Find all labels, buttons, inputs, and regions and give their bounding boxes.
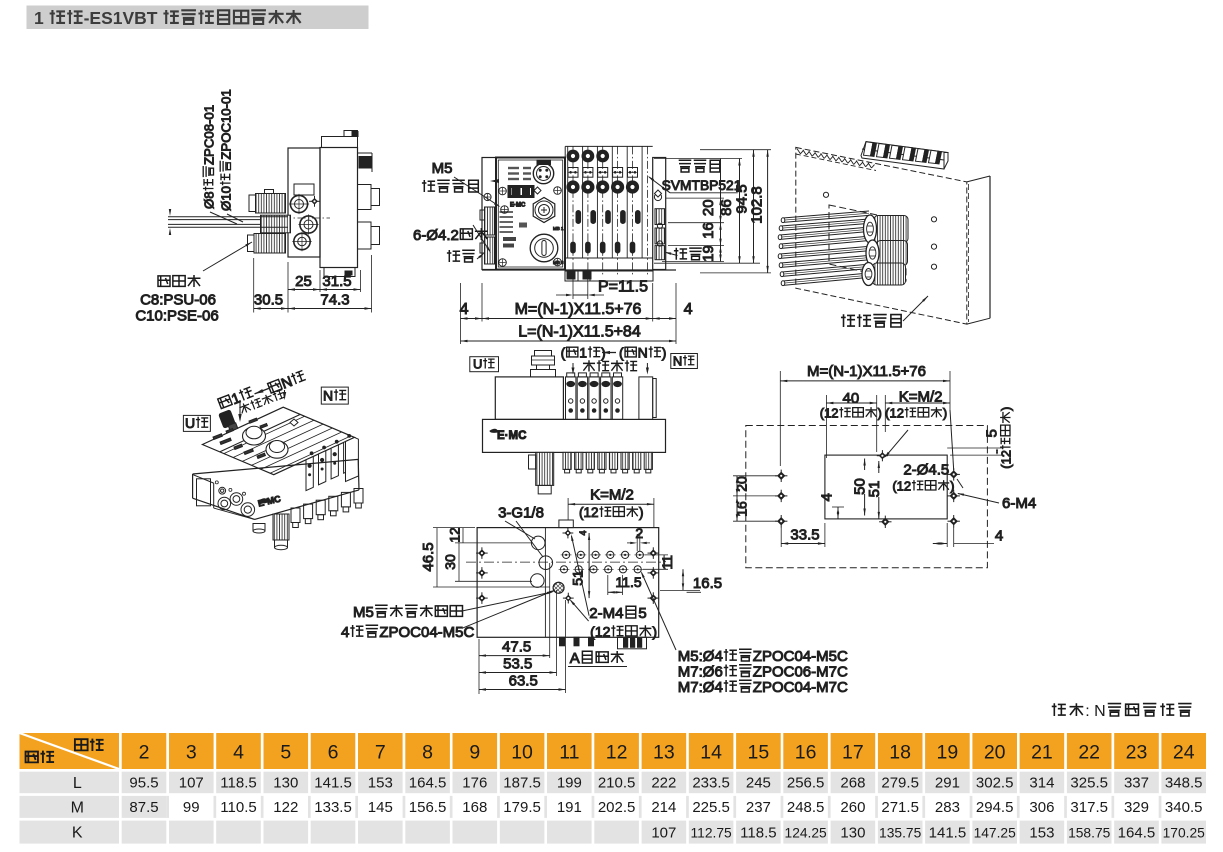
svg-text:8: 8 (422, 742, 433, 764)
svg-text:16: 16 (700, 222, 717, 239)
svg-text:13: 13 (653, 742, 675, 764)
svg-text:348.5: 348.5 (1165, 775, 1203, 792)
svg-text:): ) (639, 505, 644, 520)
svg-text:15: 15 (748, 742, 770, 764)
svg-text:U: U (185, 415, 195, 431)
svg-text:(: ( (561, 345, 566, 361)
svg-text:23: 23 (1126, 742, 1148, 764)
svg-text:MB 3: MB 3 (553, 260, 564, 265)
svg-text:291: 291 (935, 775, 960, 792)
svg-text:9: 9 (469, 742, 480, 764)
svg-text:12: 12 (447, 527, 463, 543)
svg-text:16.5: 16.5 (693, 575, 722, 592)
svg-text:2-M4: 2-M4 (589, 605, 623, 622)
svg-text:U: U (473, 357, 482, 372)
svg-text:40: 40 (842, 390, 859, 407)
svg-text:3-G1/8: 3-G1/8 (498, 505, 544, 522)
svg-text:4: 4 (578, 530, 588, 535)
svg-text:107: 107 (651, 824, 676, 841)
svg-text:4: 4 (233, 742, 244, 764)
svg-text:M: M (71, 799, 84, 816)
svg-text:M5:Ø4: M5:Ø4 (678, 648, 723, 665)
svg-text:M=(N-1)X11.5+76: M=(N-1)X11.5+76 (807, 363, 926, 380)
svg-text:46.5: 46.5 (420, 542, 437, 571)
svg-text:47.5: 47.5 (502, 639, 531, 656)
svg-text:153: 153 (368, 775, 393, 792)
svg-text:18: 18 (889, 742, 911, 764)
svg-text:19: 19 (937, 742, 959, 764)
svg-text:12: 12 (606, 742, 628, 764)
svg-text:1: 1 (579, 345, 587, 361)
svg-text:214: 214 (651, 799, 676, 816)
svg-text:191: 191 (557, 799, 582, 816)
svg-text:63.5: 63.5 (509, 673, 538, 690)
svg-text:248.5: 248.5 (787, 799, 825, 816)
svg-text:130: 130 (273, 775, 298, 792)
svg-text:99: 99 (183, 799, 200, 816)
svg-text:199: 199 (557, 775, 582, 792)
svg-text:51: 51 (866, 481, 883, 498)
svg-text:): ) (662, 345, 667, 361)
svg-text:P=11.5: P=11.5 (598, 279, 648, 296)
svg-text:Ø8: Ø8 (202, 191, 217, 209)
svg-text:4: 4 (460, 301, 469, 318)
svg-text:ZPOC10-01: ZPOC10-01 (219, 89, 234, 159)
svg-text:279.5: 279.5 (881, 775, 919, 792)
svg-text:): ) (943, 406, 947, 421)
svg-text:133.5: 133.5 (314, 799, 352, 816)
svg-text:24: 24 (1173, 742, 1195, 764)
svg-text:145: 145 (368, 799, 393, 816)
svg-text:): ) (878, 406, 882, 421)
svg-text:170.25: 170.25 (1163, 825, 1206, 840)
svg-text:102.8: 102.8 (749, 186, 766, 224)
svg-text:306: 306 (1029, 799, 1054, 816)
svg-text:(: ( (619, 345, 624, 361)
svg-text:M7:Ø4: M7:Ø4 (678, 679, 723, 696)
svg-text:187.5: 187.5 (503, 775, 541, 792)
svg-text:21: 21 (1031, 742, 1053, 764)
svg-text:260: 260 (840, 799, 865, 816)
svg-text:1: 1 (34, 8, 44, 28)
svg-text:: N: : N (1085, 703, 1105, 720)
svg-text:(12: (12 (820, 406, 839, 421)
svg-text:ZPC08-01: ZPC08-01 (202, 105, 217, 165)
svg-text:30.5: 30.5 (254, 292, 283, 309)
svg-text:): ) (999, 407, 1014, 411)
svg-text:153: 153 (1029, 824, 1054, 841)
svg-text:N: N (323, 388, 333, 404)
svg-text:ZPOC04-M5C: ZPOC04-M5C (753, 648, 848, 665)
svg-text:25: 25 (295, 273, 312, 290)
svg-text:16: 16 (795, 742, 817, 764)
svg-text:294.5: 294.5 (976, 799, 1014, 816)
svg-text:3: 3 (186, 742, 197, 764)
svg-text:6: 6 (328, 742, 339, 764)
svg-text:M5: M5 (353, 604, 374, 621)
svg-text:179.5: 179.5 (503, 799, 541, 816)
svg-text:11: 11 (559, 742, 579, 764)
svg-text:SVMTBP521: SVMTBP521 (662, 178, 742, 193)
svg-text:5: 5 (280, 742, 291, 764)
svg-text:4: 4 (995, 528, 1003, 545)
svg-text:2: 2 (139, 742, 150, 764)
svg-text:7: 7 (375, 742, 386, 764)
svg-text:19: 19 (700, 245, 717, 262)
svg-text:87.5: 87.5 (129, 799, 158, 816)
svg-text:317.5: 317.5 (1070, 799, 1108, 816)
svg-text:M=(N-1)X11.5+76: M=(N-1)X11.5+76 (515, 301, 642, 318)
svg-text:20: 20 (984, 742, 1006, 764)
svg-text:164.5: 164.5 (1118, 824, 1156, 841)
svg-text:233.5: 233.5 (692, 775, 730, 792)
svg-text:N: N (673, 354, 682, 369)
svg-text:C10:PSE-06: C10:PSE-06 (135, 308, 218, 325)
svg-text:ZPOC06-M7C: ZPOC06-M7C (753, 664, 848, 681)
svg-text:K: K (72, 825, 83, 842)
svg-text:5: 5 (638, 605, 646, 622)
svg-text:118.5: 118.5 (740, 824, 776, 841)
svg-text:33.5: 33.5 (790, 527, 819, 544)
svg-text:222: 222 (651, 775, 676, 792)
svg-text:ZPOC04-M7C: ZPOC04-M7C (753, 679, 848, 696)
svg-text:53.5: 53.5 (503, 656, 532, 673)
svg-text:(12: (12 (999, 450, 1014, 469)
svg-text:122: 122 (273, 799, 298, 816)
svg-text:6-M4: 6-M4 (1002, 495, 1036, 512)
svg-text:(12: (12 (590, 624, 610, 640)
svg-text:11: 11 (659, 555, 675, 570)
svg-text:L=(N-1)X11.5+84: L=(N-1)X11.5+84 (518, 324, 641, 341)
svg-text:4: 4 (684, 301, 693, 318)
svg-text:302.5: 302.5 (976, 775, 1014, 792)
svg-text:): ) (652, 624, 657, 640)
svg-text:E·MC: E·MC (510, 203, 526, 209)
svg-text:ZPOC04-M5C: ZPOC04-M5C (379, 624, 474, 641)
svg-text:237: 237 (746, 799, 771, 816)
svg-text:118.5: 118.5 (220, 775, 256, 792)
svg-text:141.5: 141.5 (314, 775, 352, 792)
svg-text:325.5: 325.5 (1070, 775, 1108, 792)
svg-text:283: 283 (935, 799, 960, 816)
svg-text:30: 30 (442, 554, 458, 570)
svg-text:L: L (73, 775, 82, 792)
svg-text:M5: M5 (432, 160, 453, 177)
svg-text:156.5: 156.5 (409, 799, 447, 816)
svg-text:158.75: 158.75 (1068, 825, 1111, 840)
svg-text:337: 337 (1124, 775, 1149, 792)
svg-text:17: 17 (842, 742, 864, 764)
svg-text:210.5: 210.5 (598, 775, 636, 792)
svg-text:M7:Ø6: M7:Ø6 (678, 664, 723, 681)
svg-text:11.5: 11.5 (615, 574, 641, 590)
svg-text:14: 14 (700, 742, 722, 764)
svg-text:245: 245 (746, 775, 771, 792)
svg-text:74.3: 74.3 (320, 292, 349, 309)
svg-text:168: 168 (462, 799, 487, 816)
svg-text:MB 1: MB 1 (553, 226, 564, 231)
svg-text:(12: (12 (892, 479, 911, 494)
svg-text:22: 22 (1078, 742, 1100, 764)
svg-text:4: 4 (819, 493, 836, 501)
svg-text:112.75: 112.75 (691, 825, 733, 840)
svg-text:202.5: 202.5 (598, 799, 636, 816)
svg-text:10: 10 (511, 742, 533, 764)
svg-text:124.25: 124.25 (785, 825, 828, 840)
svg-text:329: 329 (1124, 799, 1149, 816)
svg-text:164.5: 164.5 (409, 775, 447, 792)
svg-text:314: 314 (1029, 775, 1054, 792)
svg-text:C8:PSU-06: C8:PSU-06 (140, 292, 216, 309)
svg-text:2-Ø4.5: 2-Ø4.5 (903, 462, 949, 479)
svg-text:6-Ø4.2: 6-Ø4.2 (413, 227, 459, 244)
svg-text:5: 5 (984, 429, 1001, 437)
svg-text:135.75: 135.75 (879, 825, 922, 840)
svg-text:268: 268 (840, 775, 865, 792)
svg-text:95.5: 95.5 (129, 775, 158, 792)
svg-text:147.25: 147.25 (974, 825, 1017, 840)
svg-text:N: N (638, 345, 648, 361)
svg-text:340.5: 340.5 (1165, 799, 1203, 816)
svg-text:20: 20 (700, 199, 717, 216)
svg-text:51: 51 (569, 570, 585, 586)
svg-text:(12: (12 (885, 406, 904, 421)
svg-text:176: 176 (462, 775, 487, 792)
svg-text:256.5: 256.5 (787, 775, 825, 792)
svg-text:271.5: 271.5 (881, 799, 919, 816)
svg-text:141.5: 141.5 (929, 824, 967, 841)
svg-text:A: A (570, 650, 580, 667)
svg-text:Ø10: Ø10 (219, 186, 234, 211)
svg-text:110.5: 110.5 (220, 799, 256, 816)
svg-text:130: 130 (840, 824, 865, 841)
svg-text:4: 4 (341, 624, 349, 641)
svg-text:(12: (12 (579, 505, 599, 520)
svg-text:K=M/2: K=M/2 (590, 487, 634, 504)
svg-text:-ES1VBT: -ES1VBT (84, 8, 158, 28)
svg-text:107: 107 (179, 775, 204, 792)
svg-text:225.5: 225.5 (692, 799, 730, 816)
svg-text:): ) (950, 479, 954, 494)
svg-text:E·MC: E·MC (497, 430, 526, 442)
svg-text:31.5: 31.5 (322, 273, 351, 290)
